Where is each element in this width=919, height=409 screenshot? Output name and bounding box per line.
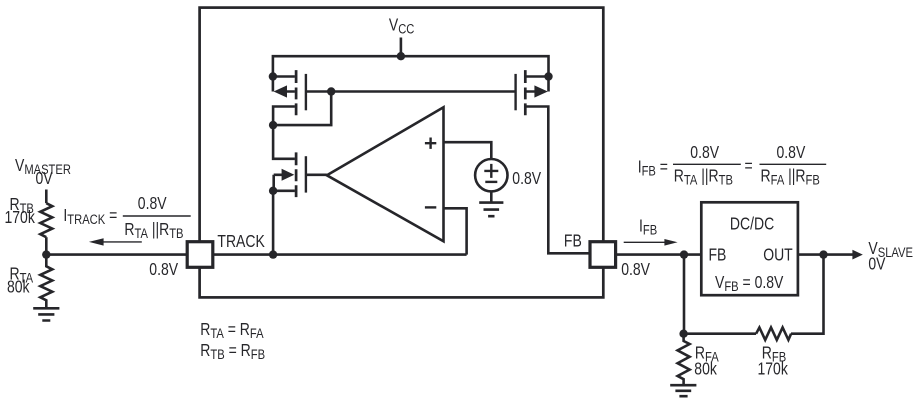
svg-text:0.8V: 0.8V (138, 195, 167, 214)
wire TRACK line right (213, 253, 467, 256)
Vcc stub (400, 38, 403, 57)
svg-text:RFA ||RFB: RFA ||RFB (761, 167, 820, 188)
wire FB node down (683, 255, 686, 334)
svg-text:TRACK: TRACK (217, 233, 265, 252)
DC/DC box (701, 202, 798, 295)
node TRACK dot (269, 250, 277, 258)
wire Vmaster to RTB (45, 190, 48, 204)
fraction bar Itrack (123, 215, 191, 217)
wire TRACK line left (46, 253, 187, 256)
svg-text:IFB =: IFB = (638, 158, 668, 179)
svg-text:0.8V: 0.8V (690, 143, 719, 162)
op-amp U1 (327, 107, 444, 241)
wire RFB to node (683, 332, 756, 335)
node M1 drain dot (269, 121, 277, 129)
svg-text:80k: 80k (694, 360, 717, 379)
node Vcc dot (397, 52, 405, 60)
node FB dot (680, 250, 688, 258)
ground (RFA) (670, 385, 696, 396)
svg-text:IFB: IFB (639, 217, 657, 238)
wire OUT (798, 253, 853, 256)
top rail wire (273, 56, 549, 76)
node gate dot (327, 87, 335, 95)
svg-text:0.8V: 0.8V (512, 170, 541, 189)
wire FB to DC/DC (616, 253, 702, 256)
svg-text:FB: FB (564, 232, 582, 251)
voltage source V1 0.8V (475, 159, 507, 202)
svg-text:0.8V: 0.8V (149, 260, 178, 279)
svg-text:DC/DC: DC/DC (730, 215, 774, 234)
arrow Itrack (101, 241, 142, 243)
pin FB square (590, 242, 616, 268)
node OUT dot (819, 250, 827, 258)
arrow Ifb (624, 241, 666, 243)
resistor RFA (678, 334, 690, 385)
svg-text:0V: 0V (868, 255, 885, 274)
pin TRACK square (187, 242, 213, 268)
svg-text:80k: 80k (7, 278, 30, 297)
svg-text:170k: 170k (5, 209, 35, 228)
svg-text:170k: 170k (758, 360, 788, 379)
wire gate line M1-M5 (306, 90, 516, 93)
node RFA dot (679, 330, 687, 338)
arrow Vslave (852, 250, 862, 260)
resistor RFB (756, 328, 791, 340)
svg-text:OUT: OUT (763, 246, 793, 265)
node M1 source dot (269, 72, 277, 80)
svg-text:RTA ||RTB: RTA ||RTB (674, 167, 733, 188)
IC box (200, 8, 604, 298)
svg-text:0.8V: 0.8V (777, 143, 806, 162)
node divider dot (42, 250, 50, 258)
wire op-amp minus input (444, 208, 467, 254)
transistor M1 (PMOS) (273, 70, 306, 125)
fraction bar Ifb 2 (760, 163, 827, 165)
svg-text:RTA = RFA: RTA = RFA (200, 321, 264, 342)
node M2 source dot (269, 187, 277, 195)
ground (source) (479, 203, 503, 217)
svg-text:0.8V: 0.8V (621, 261, 650, 280)
ground (divider) (33, 308, 59, 320)
svg-text:0V: 0V (36, 170, 53, 189)
wire OUT down loop (791, 255, 824, 334)
resistor RTB (40, 203, 52, 237)
svg-text:VCC: VCC (389, 16, 414, 37)
svg-text:ITRACK =: ITRACK = (63, 206, 117, 227)
transistor M2 (NMOS) (273, 125, 327, 255)
resistor RTA (40, 255, 52, 308)
wire RTB to node (45, 237, 48, 254)
svg-text:RTA ||RTB: RTA ||RTB (124, 221, 183, 242)
fraction bar Ifb 1 (673, 163, 741, 165)
node M5 source dot (544, 72, 552, 80)
svg-text:FB: FB (709, 246, 727, 265)
transistor M5 (PMOS right) (516, 70, 590, 253)
svg-text:RTB = RFB: RTB = RFB (200, 341, 265, 362)
svg-text:=: = (745, 157, 753, 176)
wire diode link M1 gate-drain (273, 92, 331, 126)
wire op-amp plus input (444, 142, 492, 159)
